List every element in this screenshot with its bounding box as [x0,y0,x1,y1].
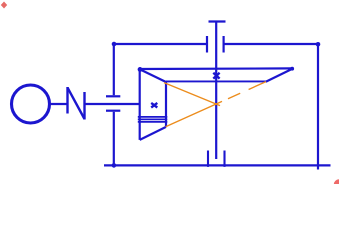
node marker X on center electrode [213,73,219,79]
marker bottom-right (red dot) [334,179,339,189]
electrode wedge bottom slant [140,127,166,140]
deflector triangle lower edge [166,80,266,82]
wire center vertical electrode [215,22,217,160]
node wedge top corner [138,67,143,72]
wire contact to wedge electrode [85,103,140,105]
generator G1 (circle source) [12,85,50,123]
ray line A (solid) [164,83,220,106]
electrode wedge right edge [165,82,167,127]
node top-left corner [112,42,117,47]
wire left vertical lower segment [113,112,115,166]
capacitor C1 plates (left, horizontal plates) [106,96,120,110]
wire right edge [317,44,319,170]
wire source to contact [51,103,68,105]
node top-right corner [316,42,321,47]
wire left vertical upper segment [113,44,115,95]
terminal bar of C2 center electrode [209,20,226,22]
electrode wedge left edge [139,69,141,140]
capacitor C3 plates (bottom, vertical plates) [208,151,225,167]
capacitor C2 plates (top, vertical plates) [207,36,224,53]
ray line B (dashed) [166,82,266,127]
node bottom-left junction [112,163,117,168]
node triangle tip [290,67,294,71]
electrode wedge top slant [140,69,166,82]
node marker X at wedge input [151,103,157,108]
contact symbol N [68,87,85,120]
marker top-left (red diamond) [1,2,7,9]
electrode wedge hatch plates [138,117,168,122]
wire top left segment [114,43,207,45]
wire top right segment [224,43,318,45]
deflector triangle top edge [140,67,293,70]
wire bottom [104,164,331,166]
deflector triangle tip diagonal [266,69,293,82]
